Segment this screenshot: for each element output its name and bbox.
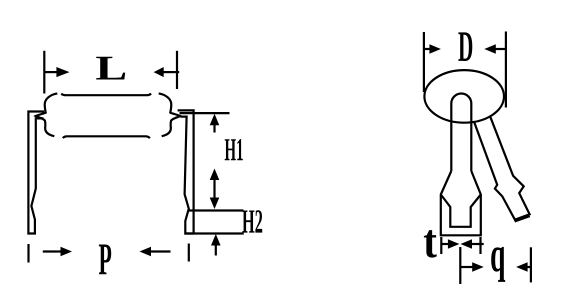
label P [99, 245, 111, 275]
label L [96, 57, 125, 80]
angled lead tip face [515, 216, 530, 221]
resistor body top edge [61, 94, 151, 96]
dimension P arrow right [140, 247, 152, 257]
dimension t extension line left [440, 237, 442, 254]
H1 double arrow [210, 169, 220, 181]
resistor body right end cap [159, 93, 181, 136]
dimension t arrows [442, 243, 450, 245]
label H1 [225, 139, 243, 160]
dimension D arrow right [484, 44, 496, 54]
resistor body left end cap [36, 93, 58, 136]
dimension D extension line right [505, 32, 507, 108]
dimension P tick right [188, 244, 190, 262]
label q [491, 247, 505, 282]
disc body ellipse [424, 70, 504, 123]
right lead [178, 110, 194, 233]
H1 top reference line [180, 112, 230, 114]
dimension D arrow left [424, 48, 431, 50]
angled lead [474, 116, 529, 219]
H1 up arrow [210, 114, 220, 126]
label H2 [242, 210, 262, 232]
dimension L arrow right [164, 71, 180, 73]
dimension q arrow left [460, 266, 473, 268]
dimension P arrow left [43, 250, 62, 252]
left lead [28, 112, 44, 234]
dimension P tick left [27, 244, 29, 263]
resistor body bottom edge [63, 136, 150, 138]
dimension L extension line right [176, 51, 178, 89]
bottom up arrow [211, 234, 221, 246]
front lead top loop [451, 94, 471, 172]
dimension D extension line left [423, 32, 425, 92]
label D [458, 32, 472, 61]
bottom reference line [185, 232, 244, 234]
dimension t extension line right [479, 237, 481, 254]
dimension q arrow right [516, 262, 528, 272]
dimension q extension line left [459, 247, 461, 284]
dimension L arrow left [44, 71, 58, 73]
front lead crimp outline [441, 171, 481, 235]
front lead inner crimp [441, 195, 481, 227]
dimension L extension line left [43, 51, 45, 94]
dimension q extension line right [530, 247, 532, 282]
H2 top reference line [189, 209, 244, 211]
label t [424, 230, 437, 258]
